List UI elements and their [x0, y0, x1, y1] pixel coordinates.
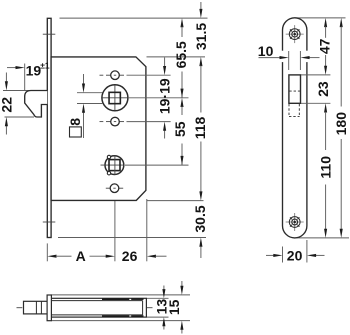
dimension 13 — [147, 297, 169, 299]
latch slot in plate — [289, 75, 301, 103]
top reference line right — [295, 17, 346, 19]
dimension 19±1 — [24, 64, 26, 91]
svg-text:19·19: 19·19 — [157, 78, 173, 114]
svg-text:23: 23 — [315, 81, 331, 97]
dimension 19.19 — [164, 58, 166, 67]
dimension 31.5 — [200, 2, 202, 10]
faceplate (main view side bar) — [47, 18, 51, 237]
svg-text:22: 22 — [0, 97, 15, 113]
svg-text:55: 55 — [172, 121, 188, 137]
screw hole bottom — [286, 213, 304, 231]
latch hook — [3, 90, 31, 92]
hole middle — [100, 121, 104, 123]
dimension square 8 arrows and label — [83, 74, 85, 84]
slot extension lines right — [301, 74, 330, 76]
bottom dimension A / 26 — [46, 243, 48, 261]
svg-text:65.5: 65.5 — [173, 41, 189, 68]
screw hole top — [286, 25, 304, 43]
case section — [51, 298, 146, 317]
dimension 65.5 — [180, 18, 183, 27]
hole bottom — [106, 187, 111, 189]
svg-text:26: 26 — [122, 248, 138, 264]
top reference line (main view) — [60, 17, 208, 19]
dimension 22 — [5, 73, 7, 83]
square 8 extension lines — [77, 92, 102, 94]
bottom reference line right — [295, 237, 349, 239]
svg-text:30.5: 30.5 — [192, 205, 208, 232]
svg-text:19: 19 — [26, 62, 42, 78]
svg-text:±1: ±1 — [40, 60, 50, 70]
dimension 15 — [181, 281, 183, 286]
plate outline — [283, 18, 307, 238]
follower U1 with square spindle hole — [102, 85, 128, 111]
svg-text:31.5: 31.5 — [193, 23, 209, 50]
svg-text:20: 20 — [287, 247, 303, 263]
right side extension lines of main view — [147, 56, 206, 58]
svg-text:15: 15 — [166, 299, 182, 315]
dimension 180 — [340, 18, 343, 27]
dimension 20 — [282, 247, 284, 263]
latch bolt section — [24, 301, 48, 314]
dimension 118 — [199, 57, 202, 66]
dimension 110 — [324, 103, 327, 112]
dimension 47 — [324, 18, 327, 27]
svg-text:118: 118 — [192, 116, 208, 139]
faceplate section — [47, 295, 51, 321]
vertical centerline through hole column — [114, 63, 116, 196]
follower 2 (lower) with square hole — [105, 156, 124, 175]
svg-text:180: 180 — [333, 112, 349, 136]
svg-text:110: 110 — [317, 156, 333, 179]
dimension 10 — [281, 51, 284, 62]
svg-text:10: 10 — [258, 43, 274, 59]
extension lines 15 — [52, 294, 191, 296]
centerline — [17, 307, 153, 309]
svg-text:A: A — [76, 248, 86, 264]
dimension 55 — [180, 98, 183, 107]
lock case outline — [51, 57, 146, 201]
svg-text:47: 47 — [316, 38, 332, 54]
svg-text:8: 8 — [67, 118, 83, 126]
hole top — [100, 74, 104, 76]
